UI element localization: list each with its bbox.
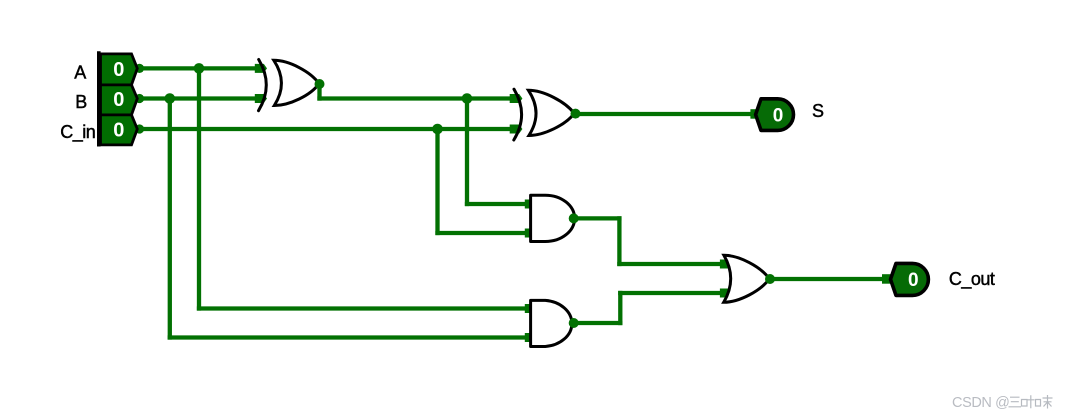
node input-A pin dot bbox=[135, 64, 144, 73]
node XOR1 input pin 1 square bbox=[255, 64, 267, 73]
node AND2 output dot bbox=[569, 318, 579, 328]
node AND2 input pin 1 square bbox=[525, 304, 534, 313]
wire B to AND2 bottom input bbox=[170, 335, 527, 339]
node XOR1 input pin 2 square bbox=[255, 94, 267, 103]
node OR input pin 1 square bbox=[720, 260, 729, 269]
junction A at (199,68.4) bbox=[194, 63, 205, 74]
watermark CJK glyph SAN bbox=[1009, 397, 1022, 407]
xor-gate U2 (sum XOR) bbox=[514, 89, 575, 140]
node OR output dot bbox=[765, 274, 775, 284]
node AND1 input pin 1 square bbox=[525, 200, 534, 209]
svg-text:C_in: C_in bbox=[60, 122, 95, 143]
wire C_in vertical drop at x=437.5 bbox=[435, 129, 439, 233]
wire XOR2 output to output S bbox=[576, 112, 755, 116]
wire AND1 output vertical down bbox=[617, 218, 621, 264]
node AND2 input pin 2 square bbox=[525, 333, 534, 342]
wire AND2 output horizontal bbox=[574, 321, 621, 325]
svg-text:0: 0 bbox=[113, 59, 124, 81]
svg-text:0: 0 bbox=[113, 120, 124, 142]
wire B horizontal from input B to XOR1 input bbox=[140, 96, 255, 100]
output C_out element body bbox=[891, 263, 929, 295]
node OR input pin 2 square bbox=[720, 289, 729, 298]
wire AND1 output horizontal bbox=[574, 216, 620, 220]
svg-text:CSDN @: CSDN @ bbox=[952, 395, 1009, 411]
and-gate U4 (bottom AND) bbox=[531, 300, 572, 346]
input A box bbox=[101, 54, 138, 85]
xor-gate U1 (A xor B) bbox=[259, 60, 320, 111]
node AND1 output dot bbox=[569, 213, 579, 223]
node XOR2 input pin 1 square bbox=[510, 94, 523, 103]
wire XOR1 output step down bbox=[317, 84, 321, 99]
svg-text:0: 0 bbox=[113, 89, 124, 111]
wire A to AND2 top input bbox=[199, 306, 527, 310]
output S element body bbox=[756, 99, 794, 131]
junction C_in at (437.5,129) bbox=[432, 124, 443, 135]
svg-text:0: 0 bbox=[908, 270, 919, 291]
input C_in box bbox=[101, 115, 138, 145]
svg-text:S: S bbox=[812, 101, 824, 121]
node XOR1 output dot bbox=[315, 79, 325, 89]
node input-B pin dot bbox=[135, 94, 144, 103]
wire XOR1out vertical drop at x=467 bbox=[465, 99, 469, 205]
wire AND1 output to OR top input bbox=[619, 262, 722, 266]
node XOR2 input pin 2 square bbox=[510, 125, 523, 134]
input B box bbox=[101, 85, 138, 115]
wire OR output to output C_out bbox=[770, 277, 889, 281]
node XOR2 output dot bbox=[571, 109, 581, 119]
junction XOR1out at (467,98.5) bbox=[462, 93, 473, 104]
node AND1 input pin 2 square bbox=[525, 229, 534, 238]
svg-text:0: 0 bbox=[773, 105, 784, 126]
svg-text:C_out: C_out bbox=[949, 269, 995, 290]
wire AND2 output to OR bottom input bbox=[620, 291, 722, 295]
wire AND2 output vertical up bbox=[618, 293, 622, 323]
wire C_in to AND1 bottom input bbox=[438, 231, 528, 235]
or-gate U5 (carry OR) bbox=[724, 255, 770, 302]
wire XOR1out to AND1 top input bbox=[467, 202, 527, 206]
node output-C_out pin square bbox=[882, 274, 892, 284]
input pins block left black bar bbox=[97, 51, 101, 146]
svg-text:A: A bbox=[74, 63, 86, 83]
watermark CJK glyph YE bbox=[1022, 395, 1035, 408]
svg-text:B: B bbox=[75, 92, 87, 112]
watermark CJK glyph WEI bbox=[1036, 395, 1053, 409]
junction B at (169.8,98.5) bbox=[165, 93, 176, 104]
node input-C_in pin dot bbox=[135, 124, 144, 133]
wire A vertical drop at x=199 bbox=[197, 68, 201, 308]
wire XOR1 output to XOR2 input bbox=[320, 96, 513, 100]
wire A horizontal from input A to XOR1 input bbox=[140, 66, 255, 70]
wire B vertical drop at x=170 bbox=[168, 99, 172, 338]
and-gate U3 (top AND) bbox=[531, 195, 575, 241]
node output-S pin square bbox=[750, 109, 760, 119]
wire C_in horizontal to XOR2 input bbox=[140, 127, 513, 131]
